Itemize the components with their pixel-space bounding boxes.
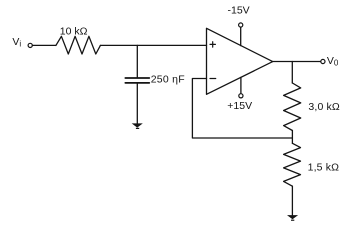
svg-text:10 kΩ: 10 kΩ: [60, 26, 88, 38]
svg-text:-15V: -15V: [228, 5, 250, 17]
svg-text:250 ηF: 250 ηF: [151, 74, 185, 86]
svg-text:3,0 kΩ: 3,0 kΩ: [308, 101, 340, 113]
svg-text:+15V: +15V: [227, 100, 252, 112]
svg-text:1,5 kΩ: 1,5 kΩ: [308, 162, 340, 174]
